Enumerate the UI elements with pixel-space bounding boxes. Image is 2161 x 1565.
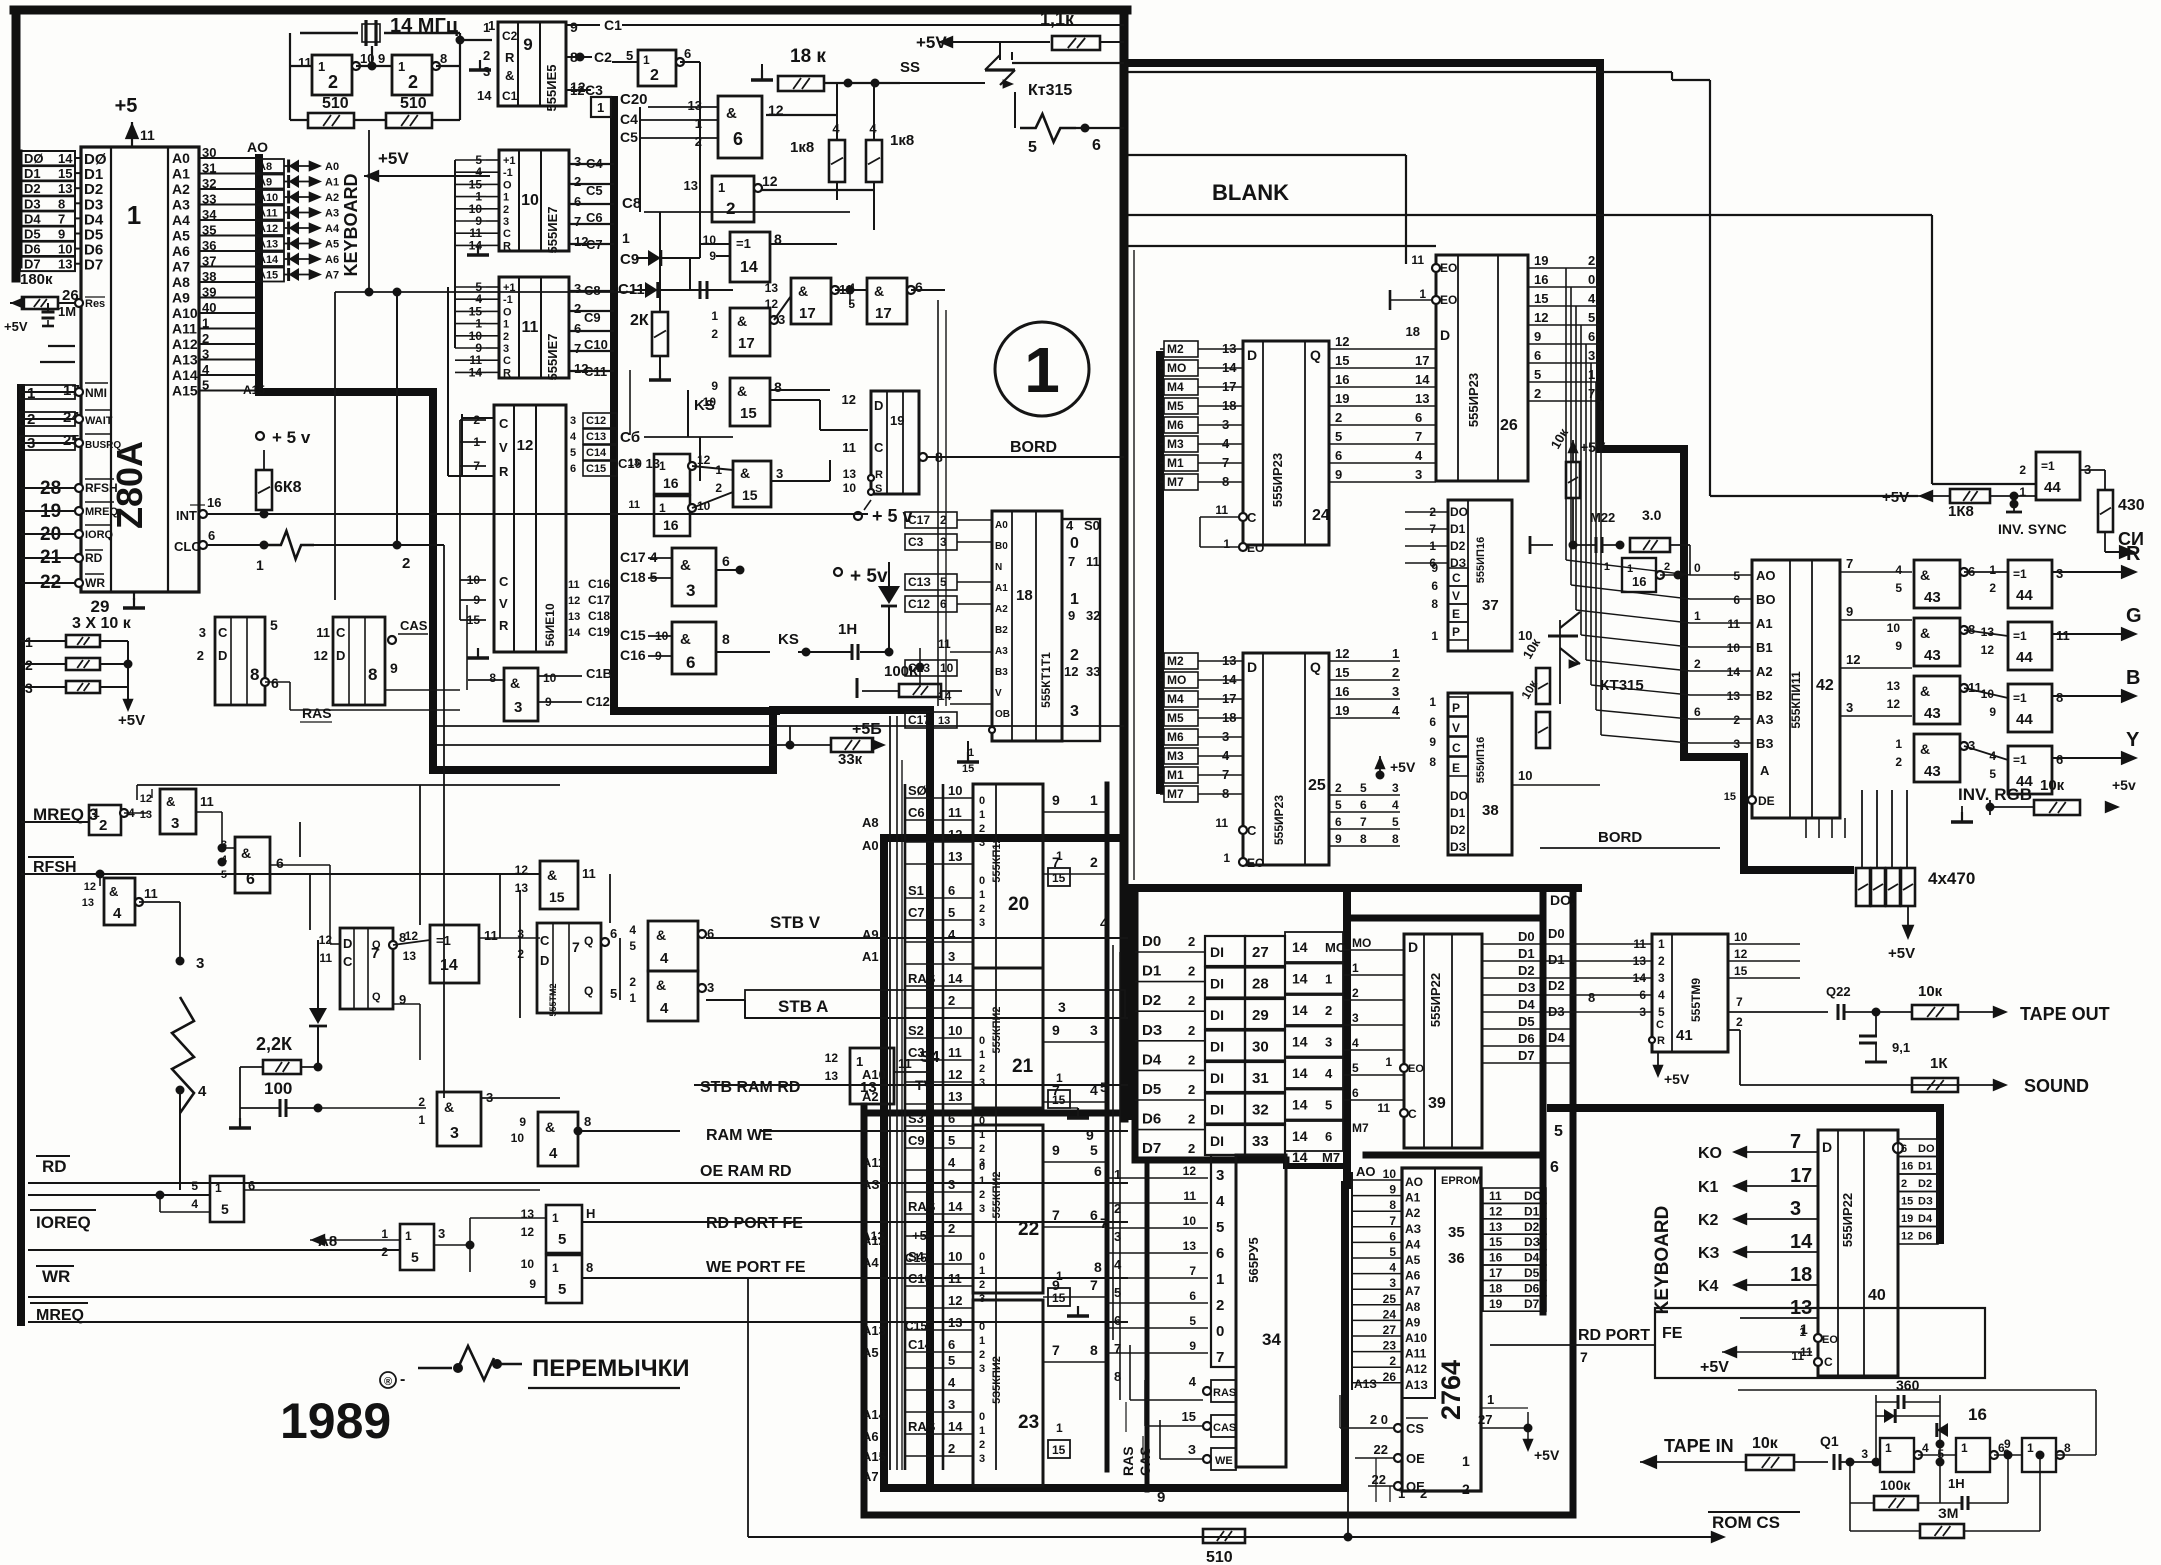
svg-text:&: & — [726, 105, 737, 122]
wire 26 to right column — [1565, 268, 1567, 560]
svg-text:A4: A4 — [325, 223, 340, 235]
svg-text:26: 26 — [1383, 1370, 1397, 1384]
svg-text:D3: D3 — [24, 196, 41, 211]
svg-text:13: 13 — [843, 467, 857, 481]
svg-text:3 X 10 к: 3 X 10 к — [72, 615, 132, 632]
svg-text:17: 17 — [738, 335, 755, 352]
svg-text:R: R — [499, 618, 509, 633]
wire RD PORT FE — [582, 1221, 1128, 1223]
svg-text:V: V — [499, 440, 508, 455]
svg-text:&: & — [1920, 625, 1930, 641]
wire clc long vertical — [443, 545, 445, 1098]
svg-text:3: 3 — [574, 281, 581, 296]
svg-text:S4: S4 — [920, 1049, 940, 1066]
svg-text:39: 39 — [1428, 1095, 1446, 1112]
svg-text:7: 7 — [1580, 1349, 1588, 1365]
svg-text:11: 11 — [319, 951, 332, 965]
svg-text:15: 15 — [1052, 1093, 1066, 1107]
svg-text:40: 40 — [1868, 1287, 1886, 1304]
svg-text:33: 33 — [1086, 664, 1100, 679]
register 26 EO gnd — [1390, 299, 1432, 301]
svg-text:&: & — [680, 557, 691, 574]
svg-text:6: 6 — [684, 46, 691, 61]
svg-text:C: C — [343, 954, 353, 969]
svg-text:13: 13 — [1489, 1220, 1503, 1234]
wire STB V — [706, 937, 1128, 939]
svg-text:5: 5 — [1352, 1061, 1359, 1075]
svg-text:39: 39 — [202, 285, 216, 300]
svg-text:2: 2 — [1188, 1112, 1195, 1127]
svg-text:2: 2 — [503, 204, 509, 216]
wire sound — [1728, 1029, 1740, 1031]
svg-text:TAPE IN: TAPE IN — [1664, 1436, 1734, 1456]
svg-text:C18 5: C18 5 — [620, 569, 658, 585]
svg-text:14: 14 — [440, 957, 458, 974]
svg-text:13: 13 — [1183, 1239, 1197, 1253]
svg-text:34: 34 — [1262, 1330, 1281, 1349]
svg-text:STB V: STB V — [770, 913, 821, 932]
svg-text:+5V: +5V — [1664, 1071, 1690, 1087]
svg-text:D1: D1 — [1450, 522, 1466, 536]
svg-text:2: 2 — [979, 823, 985, 835]
svg-text:6: 6 — [948, 1111, 955, 1126]
gate inverter 2b — [392, 55, 432, 95]
bus label M2 — [1164, 653, 1198, 669]
svg-text:555ИР23: 555ИР23 — [1272, 795, 1286, 845]
ram chip 23 — [973, 1300, 1043, 1486]
svg-text:9: 9 — [1086, 1127, 1094, 1143]
svg-text:DЗ: DЗ — [1918, 1196, 1933, 1208]
svg-text:1: 1 — [629, 991, 636, 1005]
svg-text:20: 20 — [1008, 894, 1029, 915]
ram mux row 2 — [905, 1455, 973, 1457]
svg-text:5: 5 — [948, 1133, 955, 1148]
svg-text:C: C — [1656, 1019, 1664, 1031]
svg-text:TAPE OUT: TAPE OUT — [2020, 1004, 2110, 1024]
svg-text:10: 10 — [843, 481, 857, 495]
svg-text:510: 510 — [322, 95, 349, 112]
svg-text:3: 3 — [1415, 467, 1422, 482]
svg-text:EO: EO — [1440, 261, 1457, 275]
svg-text:R: R — [503, 240, 511, 252]
svg-text:DI: DI — [1210, 1039, 1224, 1055]
svg-text:C13: C13 — [586, 431, 606, 443]
svg-text:A10: A10 — [172, 305, 198, 321]
svg-text:5: 5 — [1554, 1123, 1563, 1140]
svg-text:180к: 180к — [20, 271, 53, 288]
ram 15 terminator d — [1048, 1440, 1070, 1458]
svg-text:2 0: 2 0 — [1370, 1412, 1388, 1427]
gate AND 6 left — [235, 837, 270, 893]
svg-text:33: 33 — [202, 192, 216, 207]
svg-text:+5V: +5V — [4, 319, 28, 334]
svg-text:15: 15 — [740, 405, 757, 422]
svg-text:2: 2 — [1733, 713, 1740, 727]
wire m bus feed — [1128, 321, 1160, 323]
svg-text:2: 2 — [979, 1189, 985, 1201]
svg-text:E: E — [1452, 761, 1460, 775]
svg-text:0: 0 — [1070, 535, 1079, 552]
svg-text:16: 16 — [1534, 272, 1548, 287]
wire collector to divider — [1011, 52, 1013, 60]
svg-text:1: 1 — [1090, 792, 1098, 808]
svg-text:9: 9 — [523, 35, 532, 54]
svg-text:A15: A15 — [243, 383, 265, 397]
svg-text:B3: B3 — [995, 667, 1008, 678]
svg-text:14: 14 — [938, 689, 952, 703]
svg-text:BО: BО — [1756, 592, 1776, 607]
ic41 outputs — [1728, 943, 1800, 945]
svg-text:8: 8 — [1094, 1259, 1102, 1275]
bus label M7 — [1164, 474, 1198, 490]
ram mux row SØ — [905, 797, 973, 799]
svg-text:5: 5 — [1028, 139, 1037, 156]
ground counter 10 — [477, 245, 479, 255]
bus label M3 — [1164, 436, 1198, 452]
svg-text:1: 1 — [1989, 563, 1996, 577]
svg-text:5: 5 — [626, 48, 633, 63]
svg-text:2: 2 — [1188, 993, 1195, 1008]
svg-text:510: 510 — [1206, 1549, 1233, 1565]
register 26 outputs — [1528, 267, 1600, 269]
svg-text:A1З: A1З — [1405, 1378, 1428, 1392]
svg-text:43: 43 — [1924, 705, 1941, 722]
svg-text:KS: KS — [694, 397, 715, 414]
svg-text:17: 17 — [1415, 353, 1429, 368]
svg-text:4: 4 — [629, 923, 636, 937]
svg-text:A7: A7 — [1405, 1284, 1421, 1298]
svg-text:5: 5 — [1895, 581, 1902, 595]
svg-text:14: 14 — [568, 627, 581, 639]
svg-text:9: 9 — [1335, 832, 1342, 846]
diode tapein b — [1937, 1423, 1948, 1437]
gate AND 4 left — [104, 878, 135, 925]
svg-text:C1В: C1В — [586, 666, 612, 681]
output B — [2052, 695, 2130, 697]
gate AND 4 ramwe — [538, 1112, 578, 1166]
svg-text:&: & — [874, 283, 884, 299]
ic 38 555IP16 — [1448, 693, 1512, 855]
svg-text:1: 1 — [659, 459, 666, 473]
ic 41 555TM9 — [1652, 934, 1728, 1052]
svg-text:16: 16 — [1632, 574, 1646, 589]
ram mux row S2 — [905, 1037, 973, 1039]
svg-text:A13: A13 — [258, 239, 278, 251]
svg-text:1: 1 — [1024, 334, 1060, 406]
svg-text:C3: C3 — [908, 535, 924, 549]
svg-text:1: 1 — [1604, 561, 1610, 573]
svg-text:D6: D6 — [1142, 1111, 1161, 1128]
ram mux row 4 — [905, 941, 973, 943]
svg-text:A4: A4 — [862, 1255, 879, 1270]
svg-text:5: 5 — [1392, 815, 1399, 829]
svg-text:2: 2 — [979, 1439, 985, 1451]
wire thick lower channel top — [864, 1110, 1128, 1117]
svg-text:15: 15 — [549, 889, 565, 905]
svg-text:22: 22 — [1372, 1472, 1386, 1487]
svg-text:A: A — [1760, 763, 1770, 778]
svg-text:+5V: +5V — [1888, 945, 1915, 962]
svg-text:10: 10 — [1383, 1167, 1397, 1181]
svg-text:30: 30 — [1252, 1039, 1269, 1056]
wire address A14 — [199, 374, 256, 376]
svg-text:WAIT: WAIT — [85, 415, 113, 427]
svg-text:6: 6 — [1550, 1159, 1559, 1176]
svg-text:7: 7 — [1846, 556, 1853, 571]
ram mux row S4 — [905, 1263, 973, 1265]
svg-text:6: 6 — [1189, 1289, 1196, 1303]
svg-text:6: 6 — [948, 883, 955, 898]
svg-text:4: 4 — [191, 1197, 198, 1211]
svg-text:Q: Q — [584, 984, 593, 998]
gate AND 43c — [1914, 676, 1960, 724]
gate AND 43a — [1914, 560, 1960, 608]
svg-text:21: 21 — [1012, 1056, 1034, 1077]
eprom OE pin b — [1394, 1482, 1402, 1490]
svg-text:S2: S2 — [908, 1023, 924, 1038]
svg-text:32: 32 — [1252, 1102, 1269, 1119]
capacitor C tank — [699, 281, 702, 299]
svg-text:D0: D0 — [1548, 926, 1565, 941]
svg-text:14: 14 — [1292, 1097, 1308, 1113]
svg-text:6: 6 — [276, 855, 284, 871]
svg-text:A6: A6 — [1405, 1269, 1421, 1283]
svg-text:10: 10 — [58, 242, 72, 257]
svg-text:AЗ: AЗ — [1756, 712, 1774, 727]
svg-text:INT: INT — [176, 508, 197, 523]
svg-text:1: 1 — [979, 1265, 985, 1277]
svg-text:11: 11 — [938, 637, 951, 651]
svg-text:14: 14 — [1727, 665, 1741, 679]
svg-text:МО: МО — [1352, 936, 1371, 950]
bus label M1 — [1164, 767, 1198, 783]
svg-text:1: 1 — [1056, 849, 1063, 863]
wire address A7 — [199, 266, 256, 268]
svg-text:=1: =1 — [2013, 691, 2027, 705]
svg-text:13: 13 — [938, 715, 950, 727]
svg-text:A6: A6 — [172, 243, 190, 259]
svg-text:C17: C17 — [908, 713, 930, 727]
svg-text:3: 3 — [1392, 781, 1399, 795]
svg-text:RAM WE: RAM WE — [706, 1127, 773, 1144]
svg-text:44: 44 — [2016, 587, 2033, 604]
svg-text:A8: A8 — [258, 161, 272, 173]
svg-text:2: 2 — [1335, 781, 1342, 795]
svg-text:4: 4 — [948, 1375, 956, 1390]
svg-text:1: 1 — [318, 59, 325, 74]
svg-text:11: 11 — [1183, 1189, 1196, 1203]
ram 34 WE pin — [1211, 1448, 1236, 1470]
wire thick RAM box top — [884, 834, 1122, 842]
svg-text:C14: C14 — [908, 1337, 933, 1352]
ic 39 outputs D bus — [1482, 943, 1570, 945]
svg-text:8: 8 — [1090, 1342, 1098, 1358]
wire tapein net — [1918, 1454, 1956, 1456]
wire cap to gate — [318, 1107, 426, 1109]
bus stub D4 pin 7 — [20, 211, 75, 225]
svg-text:13: 13 — [684, 178, 698, 193]
svg-text:DЗ: DЗ — [1450, 840, 1466, 854]
svg-text:4: 4 — [1392, 798, 1399, 812]
svg-text:3: 3 — [450, 1125, 459, 1142]
svg-text:43: 43 — [1924, 647, 1941, 664]
bus label M1 — [1164, 455, 1198, 471]
svg-text:R: R — [499, 464, 509, 479]
ram chip 30 — [1205, 1031, 1245, 1061]
svg-text:A3: A3 — [325, 208, 339, 220]
svg-text:5: 5 — [1335, 429, 1342, 444]
svg-text:&: & — [1920, 567, 1930, 583]
svg-text:8: 8 — [2064, 1441, 2071, 1455]
svg-text:11: 11 — [582, 866, 596, 881]
svg-text:1: 1 — [1216, 1271, 1224, 1288]
svg-text:11: 11 — [2056, 628, 2070, 643]
svg-text:7: 7 — [1090, 1277, 1098, 1293]
svg-text:E: E — [1452, 607, 1460, 621]
svg-text:0: 0 — [979, 875, 985, 887]
svg-text:1: 1 — [1056, 1071, 1063, 1085]
svg-text:10: 10 — [1518, 768, 1532, 783]
svg-text:1: 1 — [1325, 972, 1332, 987]
svg-text:14: 14 — [1292, 1149, 1308, 1165]
svg-text:23: 23 — [1383, 1339, 1397, 1353]
wire data D5 — [75, 233, 81, 235]
svg-text:1: 1 — [711, 309, 718, 323]
svg-text:&: & — [545, 1119, 555, 1135]
svg-text:3: 3 — [948, 1177, 955, 1192]
svg-text:6: 6 — [686, 653, 695, 672]
svg-text:13: 13 — [58, 257, 72, 272]
svg-text:2: 2 — [629, 975, 636, 989]
svg-text:6: 6 — [1431, 579, 1438, 593]
svg-text:CS: CS — [1406, 1421, 1424, 1436]
wire thick C-bus vertical — [610, 100, 618, 711]
ram mux row 4 — [905, 1169, 973, 1171]
gate XOR 14 left — [430, 925, 479, 983]
bus stub DØ pin 14 — [20, 151, 75, 165]
svg-text:6: 6 — [1733, 593, 1740, 607]
svg-text:1: 1 — [659, 501, 666, 515]
svg-text:C: C — [1247, 823, 1257, 838]
svg-text:C: C — [336, 625, 346, 640]
svg-text:29: 29 — [91, 597, 110, 616]
svg-text:19: 19 — [890, 413, 904, 428]
wire data D3 — [75, 202, 81, 204]
svg-text:6: 6 — [1335, 815, 1342, 829]
svg-text:M1: M1 — [1167, 456, 1184, 470]
svg-text:7: 7 — [1052, 1207, 1060, 1223]
wire address A6 — [199, 250, 256, 252]
svg-text:AЗ: AЗ — [1405, 1222, 1421, 1236]
svg-text:16: 16 — [1335, 684, 1349, 699]
svg-text:C10: C10 — [584, 337, 608, 352]
svg-text:2: 2 — [202, 331, 209, 346]
svg-text:8: 8 — [58, 196, 65, 211]
svg-text:EO: EO — [1440, 293, 1457, 307]
wire counter outputs to bus a — [569, 163, 614, 165]
svg-text:9: 9 — [378, 51, 385, 66]
svg-text:10: 10 — [1887, 621, 1901, 635]
svg-text:1: 1 — [1419, 287, 1426, 301]
wire WE PORT FE — [582, 1277, 1128, 1279]
svg-text:CLC: CLC — [174, 539, 201, 554]
box C20-1 — [591, 97, 611, 117]
svg-text:17: 17 — [1790, 1165, 1812, 1187]
svg-text:43: 43 — [1924, 763, 1941, 780]
svg-text:A1: A1 — [862, 949, 879, 964]
svg-text:A11: A11 — [862, 1155, 885, 1170]
bus stub D6 pin 10 — [20, 242, 75, 256]
wire 10K join — [127, 641, 129, 702]
svg-text:31: 31 — [202, 161, 216, 176]
svg-text:15: 15 — [1489, 1235, 1503, 1249]
diode keyboard A11 — [256, 206, 284, 220]
svg-text:3: 3 — [171, 815, 179, 832]
svg-text:6: 6 — [1389, 1229, 1396, 1243]
ram chip 32 — [1205, 1094, 1245, 1124]
resistor 430 — [2098, 490, 2113, 532]
svg-text:12: 12 — [84, 881, 96, 893]
svg-text:8: 8 — [586, 1260, 593, 1275]
svg-text:5: 5 — [1216, 1219, 1224, 1236]
svg-text:17: 17 — [799, 305, 816, 322]
svg-text:A12: A12 — [172, 336, 198, 352]
svg-text:13: 13 — [82, 897, 94, 909]
svg-text:A3: A3 — [172, 197, 190, 213]
ground inv rgb — [1961, 812, 1963, 822]
svg-text:6: 6 — [208, 528, 215, 543]
svg-text:4: 4 — [1392, 703, 1400, 718]
svg-text:11: 11 — [484, 928, 498, 943]
wire tm2a q to 14 — [479, 937, 540, 939]
wire A8 arrow — [310, 1234, 325, 1247]
svg-text:M6: M6 — [1167, 418, 1184, 432]
svg-text:1: 1 — [552, 1261, 559, 1275]
svg-text:+ 5 v: + 5 v — [872, 506, 913, 526]
svg-text:5: 5 — [1658, 1005, 1665, 1019]
svg-text:15: 15 — [1724, 791, 1736, 803]
svg-text:8: 8 — [489, 671, 496, 685]
registered mark — [380, 1372, 396, 1388]
svg-text:C14: C14 — [586, 447, 607, 459]
svg-text:A9: A9 — [258, 177, 272, 189]
svg-text:0: 0 — [979, 1035, 985, 1047]
svg-text:1: 1 — [1223, 851, 1230, 865]
ram mux row RAS — [905, 1213, 973, 1215]
svg-text:Y: Y — [2126, 729, 2140, 751]
wire misc bundle 1 — [629, 370, 631, 435]
svg-text:13: 13 — [58, 181, 72, 196]
svg-text:17: 17 — [875, 305, 892, 322]
svg-text:2: 2 — [1462, 1481, 1470, 1497]
svg-text:C7: C7 — [908, 905, 925, 920]
gate 13 s4 — [850, 1048, 894, 1104]
ram mux row S1 — [905, 897, 973, 899]
svg-text:A11: A11 — [258, 208, 278, 220]
svg-text:3: 3 — [221, 839, 227, 851]
svg-text:2: 2 — [1188, 1141, 1195, 1156]
svg-text:C2: C2 — [502, 29, 518, 43]
svg-text:3: 3 — [199, 625, 206, 640]
bus label MО — [1164, 672, 1198, 688]
ic 10 555IE7 — [499, 150, 569, 251]
wire trigger verticals — [466, 605, 468, 690]
svg-text:D2: D2 — [1918, 1178, 1932, 1190]
svg-text:5: 5 — [948, 1353, 955, 1368]
svg-text:14: 14 — [1292, 1034, 1308, 1050]
svg-text:11: 11 — [1086, 554, 1100, 569]
svg-text:3: 3 — [1733, 737, 1740, 751]
